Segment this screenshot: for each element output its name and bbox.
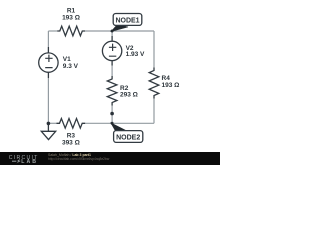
V2 terminal leads	[111, 36, 113, 66]
svg-text:393 Ω: 393 Ω	[62, 139, 80, 146]
svg-text:293 Ω: 293 Ω	[120, 91, 138, 98]
svg-text:NODE2: NODE2	[116, 134, 140, 141]
svg-text:LAB: LAB	[21, 159, 38, 165]
CircuitLab logo dashes	[12, 160, 16, 162]
NODE1 label box	[113, 14, 142, 26]
junction dot middle rail	[110, 112, 114, 116]
svg-text:193 Ω: 193 Ω	[62, 15, 80, 22]
resistor R1 body with leads	[57, 26, 85, 36]
svg-text:1.93 V: 1.93 V	[126, 51, 145, 58]
svg-text:9.3 V: 9.3 V	[63, 63, 79, 70]
svg-text:R1: R1	[67, 8, 76, 15]
wire middle rail between V2 and R2	[111, 66, 113, 77]
wire middle rail top stub	[111, 31, 113, 36]
V1 terminal leads	[47, 47, 49, 78]
NODE2 flag tail	[111, 123, 127, 132]
ground symbol	[41, 123, 55, 139]
wire bottom rail left segment	[48, 122, 56, 124]
wire middle rail lower	[111, 106, 113, 124]
wire left rail upper	[47, 31, 49, 47]
junction dot NODE2	[111, 122, 114, 125]
wire left rail lower	[47, 78, 49, 123]
resistor R2 body with leads	[107, 76, 117, 106]
resistor R3 body with leads	[57, 119, 86, 129]
junction dot left	[47, 122, 51, 126]
NODE2 label box	[114, 131, 143, 143]
wire top rail right segment	[85, 30, 154, 32]
CircuitLab logo bolt	[16, 159, 21, 164]
svg-text:193 Ω: 193 Ω	[162, 82, 180, 89]
svg-text:R4: R4	[162, 75, 171, 82]
watermark bar	[0, 152, 220, 165]
V2 plus minus marks	[109, 44, 116, 57]
V1 plus minus marks	[45, 55, 52, 68]
wire right rail upper	[153, 31, 155, 68]
wire right rail lower	[153, 99, 155, 124]
NODE1 flag tail	[111, 25, 128, 32]
junction dot NODE1	[111, 30, 114, 33]
voltage source V1 body	[39, 53, 58, 72]
svg-text:http://circuitlab.com/c5f3krw6: http://circuitlab.com/c5f3krw6vp4nq8e2bw	[48, 157, 110, 161]
svg-text:NODE1: NODE1	[115, 17, 139, 24]
wire top rail left segment	[48, 30, 57, 32]
wire bottom rail right segment	[85, 122, 154, 124]
voltage source V2 body	[102, 41, 121, 60]
resistor R4 body with leads	[149, 68, 159, 99]
